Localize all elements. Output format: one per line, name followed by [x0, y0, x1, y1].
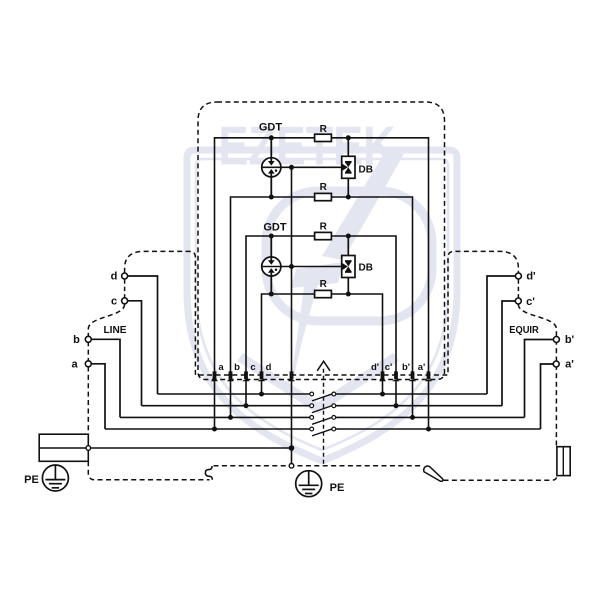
- GDT U2 gas discharge tube: [262, 236, 281, 294]
- resistor R2: [315, 193, 332, 200]
- svg-text:a: a: [218, 362, 224, 373]
- dashed bottom right line: [444, 476, 557, 481]
- S-joint piece bottom left: [205, 466, 212, 480]
- nested box 3 (c-c'): [246, 236, 396, 372]
- terminal a: [85, 361, 91, 367]
- GDT U1 gas discharge tube: [262, 138, 281, 197]
- svg-text:b: b: [234, 362, 240, 373]
- module outer dashed rounded box: [198, 102, 445, 380]
- terminal d: [122, 273, 128, 279]
- nested box 2 (b-b'): [231, 197, 413, 372]
- wire terminal c stub: [128, 301, 142, 406]
- bus line 1 (d-d'): [158, 393, 310, 395]
- watermark logo EZETEK shield: [187, 115, 457, 462]
- svg-text:b': b': [402, 362, 410, 373]
- terminal c: [122, 298, 128, 304]
- wire terminal d' stub: [487, 276, 516, 394]
- DIN rail end piece: [557, 447, 570, 476]
- base module dashed outline top-left / chord / top-right: [125, 251, 519, 375]
- switch S2: [310, 404, 336, 413]
- wire terminal d stub: [128, 276, 158, 394]
- GDT U2 link wire: [262, 266, 342, 268]
- svg-text:b': b': [565, 334, 575, 346]
- svg-text:GDT: GDT: [263, 221, 287, 233]
- ground column: [291, 167, 293, 371]
- PE open node left: [86, 446, 91, 451]
- dashed outline below PE block to bottom (left): [88, 461, 209, 480]
- PE wire: [40, 447, 292, 449]
- wire terminal a stub: [91, 364, 105, 429]
- svg-text:c: c: [250, 362, 255, 373]
- svg-text:DB: DB: [359, 263, 373, 274]
- wire terminal c' stub: [502, 301, 515, 406]
- svg-text:c: c: [111, 296, 117, 308]
- terminal b': [553, 337, 559, 343]
- wire terminal b' stub: [525, 340, 554, 418]
- diode breakdown DB1: [342, 138, 355, 197]
- terminal d': [515, 273, 521, 279]
- bus line 3 (b-b'): [120, 416, 310, 418]
- svg-text:a': a': [418, 362, 426, 373]
- svg-text:c': c': [526, 296, 535, 308]
- resistor R3: [315, 232, 332, 239]
- pin drop wires to bus: [214, 380, 216, 429]
- connector pins through module bottom: [211, 371, 432, 381]
- svg-text:b: b: [73, 334, 80, 346]
- wire terminal a' stub: [541, 364, 554, 429]
- PE open node center: [289, 464, 294, 469]
- switch S3: [310, 416, 336, 425]
- nested box 1 (a-a'): [215, 138, 429, 372]
- svg-text:DB: DB: [359, 164, 373, 175]
- bus line 2 (c-c'): [142, 405, 310, 407]
- PE earth symbol left: [42, 465, 68, 491]
- resistor R1: [315, 134, 332, 141]
- svg-text:d': d': [526, 271, 536, 283]
- junction dots inner circuit: [269, 135, 274, 140]
- svg-text:d: d: [266, 362, 272, 373]
- svg-text:d': d': [371, 362, 379, 373]
- terminal c': [515, 298, 521, 304]
- PE junction dot: [289, 445, 295, 451]
- switch S1: [310, 392, 336, 401]
- bus line 4 (a-a'): [105, 428, 310, 430]
- svg-text:R: R: [320, 222, 328, 233]
- PE terminal block left: [39, 434, 88, 461]
- DIN clip lever: [424, 466, 443, 481]
- PE earth symbol center: [296, 471, 322, 497]
- switch S4: [310, 427, 336, 436]
- bus junction dots: [259, 392, 264, 397]
- diode breakdown DB2: [342, 236, 355, 294]
- svg-text:c': c': [385, 362, 393, 373]
- svg-text:GDT: GDT: [259, 122, 283, 134]
- dashed link d'-c' right: [517, 279, 519, 297]
- svg-text:EQUIR: EQUIR: [509, 324, 539, 336]
- wire terminal b stub: [91, 339, 120, 417]
- svg-text:d: d: [111, 271, 118, 283]
- svg-text:a': a': [565, 359, 574, 371]
- svg-text:R: R: [320, 279, 328, 290]
- svg-text:PE: PE: [24, 474, 39, 486]
- resistor R4: [315, 290, 332, 297]
- svg-text:R: R: [320, 182, 328, 193]
- terminal b: [85, 336, 91, 342]
- terminal a': [553, 361, 559, 367]
- switch actuator caret: [317, 361, 330, 371]
- svg-text:PE: PE: [330, 482, 345, 494]
- nested box 4 (d-d'): [262, 294, 383, 372]
- ganged switch dashed link: [323, 369, 325, 466]
- dashed outline c' to b' and down (right): [518, 304, 556, 447]
- svg-text:a: a: [71, 359, 78, 371]
- dashed link d-c left: [124, 279, 126, 297]
- GDT U1 link wire: [262, 166, 342, 168]
- dashed bottom center line: [214, 465, 424, 467]
- svg-text:LINE: LINE: [104, 324, 127, 336]
- svg-text:R: R: [320, 124, 328, 135]
- dashed outline c to b and down to PE block (left): [88, 304, 124, 434]
